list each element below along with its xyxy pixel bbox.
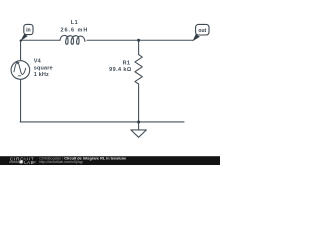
node junction dot bottom (137, 120, 140, 123)
node out flag box (196, 24, 209, 35)
wire bottom horizontal (20, 121, 184, 123)
inductor L1 (60, 35, 85, 44)
footer logo glyph (20, 160, 23, 163)
node out flag tail (193, 34, 200, 41)
ground triangle (131, 130, 147, 137)
footer bar (0, 156, 220, 165)
svg-text:LAB: LAB (24, 160, 34, 165)
node in corner blob (20, 40, 22, 42)
V4 plus sign (16, 61, 19, 64)
svg-text:out: out (198, 28, 206, 34)
svg-text:V4: V4 (34, 59, 42, 65)
svg-text:99.4 kΩ: 99.4 kΩ (109, 67, 132, 73)
V4 minus sign (18, 75, 21, 77)
footer logo LAB mask (23, 160, 33, 164)
svg-text:http://circuitlab.com/c9j4qp: http://circuitlab.com/c9j4qp (39, 160, 83, 164)
resistor R1 top lead (138, 40, 140, 54)
wire left vertical (source top lead) (20, 40, 22, 61)
node in flag box (24, 24, 33, 34)
svg-text:in: in (26, 28, 31, 34)
node in flag tail (20, 34, 27, 41)
ground stub (138, 122, 140, 130)
svg-text:R1: R1 (123, 60, 131, 66)
voltage source V4 circle (11, 61, 30, 80)
svg-text:L1: L1 (71, 20, 78, 26)
resistor R1 zigzag (135, 55, 142, 84)
footer logo line (9, 161, 35, 163)
node junction dot top (137, 39, 140, 42)
svg-text:1 kHz: 1 kHz (34, 72, 49, 78)
svg-text:square: square (34, 65, 53, 71)
svg-text:26.6 mH: 26.6 mH (61, 27, 89, 33)
wire top horizontal (20, 39, 60, 41)
V4 waveform (14, 62, 26, 74)
resistor R1 bottom lead (138, 84, 140, 122)
wire left vertical (source bottom lead) (20, 79, 22, 122)
wire top horizontal right of inductor (87, 39, 193, 41)
